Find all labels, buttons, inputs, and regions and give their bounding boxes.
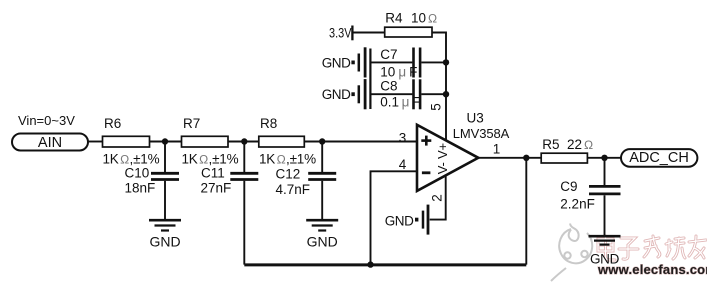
- node junction R5/C9: [601, 155, 607, 161]
- svg-text:3.3V: 3.3V: [329, 26, 352, 41]
- svg-text:R6: R6: [104, 116, 121, 131]
- port AIN: [12, 134, 88, 152]
- resistor R5: [541, 137, 593, 163]
- capacitor C12: [276, 142, 337, 220]
- port ADC_CH: [621, 149, 697, 167]
- svg-text:C10: C10: [125, 165, 150, 180]
- svg-text:R7: R7: [183, 116, 200, 131]
- gnd flag for C8: [322, 79, 365, 109]
- svg-text:C8: C8: [380, 78, 397, 93]
- svg-text:5: 5: [429, 103, 444, 111]
- gnd flag for C7: [322, 47, 365, 77]
- svg-text:27nF: 27nF: [201, 181, 232, 196]
- watermark logo (elecfans): [551, 224, 592, 282]
- wire bottom rail: [244, 263, 526, 266]
- wire R4 to V+ bus: [432, 33, 446, 142]
- wire R6 to R7: [150, 141, 182, 143]
- wire R7 to R8: [228, 141, 259, 143]
- op-amp plus symbol: [421, 136, 431, 146]
- svg-text:LMV358A: LMV358A: [453, 126, 510, 141]
- svg-text:U3: U3: [467, 110, 484, 125]
- resistor R6: [103, 116, 160, 167]
- svg-text:R5: R5: [542, 137, 559, 152]
- svg-text:1KΩ,±1%: 1KΩ,±1%: [182, 152, 239, 167]
- svg-text:3: 3: [399, 131, 407, 146]
- wire R8 to op-amp pin 3: [304, 141, 417, 143]
- svg-text:ADC_CH: ADC_CH: [629, 150, 689, 166]
- svg-text:V- V+: V- V+: [435, 143, 450, 174]
- svg-text:10Ω: 10Ω: [411, 10, 437, 25]
- wire rail riser to output: [525, 158, 527, 265]
- resistor R7: [182, 116, 239, 167]
- svg-text:C9: C9: [560, 179, 577, 194]
- svg-text:10μF: 10μF: [380, 65, 417, 80]
- node junction C (R8/C12): [319, 138, 325, 144]
- svg-text:GND: GND: [590, 252, 620, 267]
- node junction on V+ bus (C8): [443, 91, 449, 97]
- svg-text:GND: GND: [322, 55, 351, 70]
- capacitor C10: [125, 142, 180, 220]
- svg-text:R8: R8: [260, 116, 277, 131]
- svg-text:R4: R4: [385, 10, 403, 25]
- svg-text:GND: GND: [385, 213, 414, 228]
- capacitor C11: [201, 142, 259, 265]
- ground below C12: [306, 220, 338, 249]
- op-amp U3: [417, 110, 510, 191]
- node junction B (R7/R8/C11): [241, 138, 247, 144]
- op-amp minus symbol: [422, 171, 431, 174]
- svg-text:2: 2: [430, 194, 445, 202]
- wire pin 2 to gnd flag: [430, 175, 446, 220]
- gnd flag for pin 2: [385, 205, 428, 235]
- svg-text:GND: GND: [307, 234, 338, 250]
- node junction on V+ bus (C7): [443, 59, 449, 65]
- svg-text:C11: C11: [201, 165, 225, 180]
- wire shared C7/C8 left vertical: [369, 49, 371, 110]
- svg-text:22Ω: 22Ω: [567, 137, 593, 152]
- power flag 3.3V: [329, 26, 352, 41]
- svg-text:4.7nF: 4.7nF: [276, 182, 311, 197]
- wire op-amp pin4 feedback to bottom rail: [371, 171, 418, 264]
- node junction output/feedback: [523, 155, 529, 161]
- resistor R8: [259, 116, 316, 167]
- svg-text:2.2nF: 2.2nF: [560, 197, 595, 212]
- svg-text:GND: GND: [149, 234, 180, 250]
- capacitor C7: [370, 47, 446, 80]
- svg-text:18nF: 18nF: [125, 181, 156, 196]
- resistor R4: [385, 10, 437, 37]
- svg-text:GND: GND: [322, 87, 351, 102]
- capacitor C9: [560, 158, 620, 235]
- wire R5 to ADC_CH: [587, 157, 621, 159]
- wire AIN to R6: [88, 141, 103, 143]
- watermark text: [598, 236, 706, 260]
- svg-text:1KΩ,±1%: 1KΩ,±1%: [259, 152, 316, 167]
- capacitor C8: [370, 78, 446, 109]
- wire 3.3V to R4: [352, 32, 384, 34]
- svg-text:AIN: AIN: [38, 135, 62, 151]
- node junction rail/pin4: [367, 261, 373, 267]
- svg-text:C12: C12: [276, 167, 301, 182]
- ground below C10: [149, 220, 181, 249]
- svg-text:4: 4: [399, 157, 407, 172]
- wire output pin1 to R5: [478, 157, 541, 159]
- svg-text:Vin=0~3V: Vin=0~3V: [18, 113, 75, 128]
- svg-text:1KΩ,±1%: 1KΩ,±1%: [103, 152, 160, 167]
- svg-text:C7: C7: [380, 47, 397, 62]
- ground below C9: [589, 236, 621, 266]
- svg-text:1: 1: [493, 142, 501, 157]
- node junction A (R6/R7/C10): [162, 138, 168, 144]
